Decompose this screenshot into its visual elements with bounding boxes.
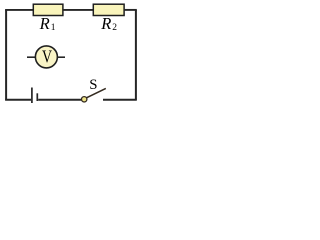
svg-text:R: R [39, 14, 50, 33]
wire bottom-right segment [103, 99, 137, 101]
wire bottom-left segment [5, 99, 31, 101]
svg-text:2: 2 [112, 23, 117, 33]
wire left vertical [5, 10, 7, 100]
wire voltmeter left stub [27, 56, 36, 58]
svg-text:1: 1 [51, 23, 56, 33]
wire battery to switch segment [38, 99, 81, 101]
wire right vertical [135, 10, 137, 100]
resistor R2 [93, 4, 124, 15]
voltmeter V [35, 46, 57, 68]
svg-text:R: R [100, 14, 111, 33]
wire top-middle segment [63, 9, 94, 11]
wire voltmeter right stub [57, 56, 65, 58]
resistor R1 [33, 4, 63, 15]
switch pivot circle [82, 97, 87, 102]
svg-text:S: S [89, 77, 97, 93]
battery long plate [31, 88, 33, 104]
wire top-right segment [124, 9, 137, 11]
switch lever [87, 88, 106, 97]
battery short plate [36, 93, 38, 101]
wire top-left segment [5, 9, 33, 11]
svg-text:V: V [42, 47, 52, 67]
